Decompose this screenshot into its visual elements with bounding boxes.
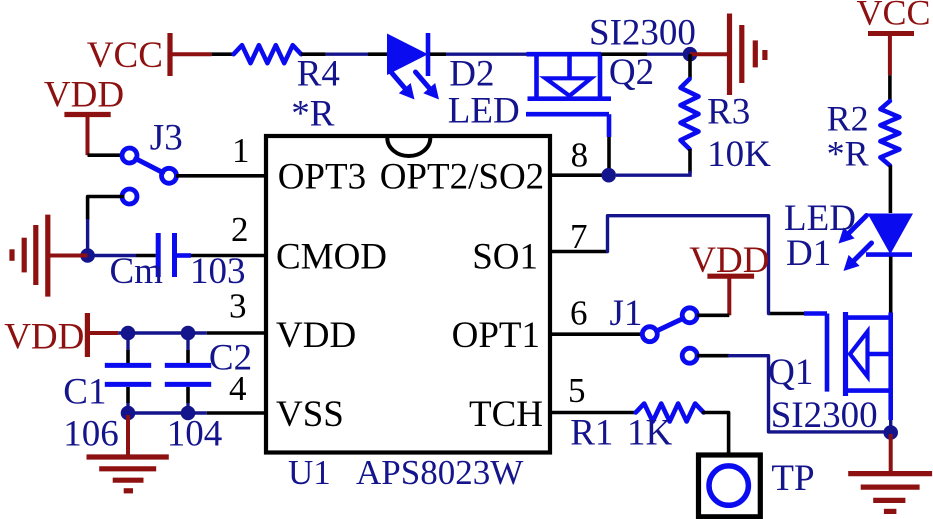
wire J1 lower to ground net [697, 356, 884, 432]
wire R1 to TP [704, 413, 729, 456]
svg-text:5: 5 [568, 371, 586, 410]
wire Q1 source down [888, 391, 893, 433]
node C2 bottom junction [181, 406, 196, 421]
node Q1 source junction [883, 425, 898, 440]
pin number 3 [229, 287, 247, 326]
LED D2 [368, 33, 520, 132]
ground (bottom left) [87, 415, 169, 491]
ground (bottom right) [848, 434, 932, 511]
pin number 8 [571, 136, 589, 175]
wire R3 to pin8 node [616, 171, 692, 175]
capacitor Cm [110, 233, 246, 292]
wire SO1 to Q1 gate [550, 216, 769, 314]
U1 pin name VSS [276, 394, 344, 435]
U1 pin name OPT1 [452, 315, 540, 356]
resistor R3 [681, 54, 772, 175]
wire R2 to D1 [889, 166, 893, 214]
node pin8 junction [601, 168, 616, 183]
svg-text:VDD: VDD [4, 317, 84, 358]
svg-text:J3: J3 [150, 117, 183, 158]
wire pin6 stub [550, 332, 643, 336]
svg-text:D1: D1 [786, 233, 831, 274]
svg-text:R1: R1 [570, 413, 613, 454]
node Q2-R3-GND junction [683, 47, 698, 62]
U1 pin name TCH [469, 394, 543, 435]
svg-text:R2: R2 [827, 99, 869, 139]
svg-text:2: 2 [231, 210, 249, 249]
svg-text:OPT2/SO2: OPT2/SO2 [380, 157, 544, 198]
U1 pin name OPT3 [278, 157, 366, 198]
power port VCC (top right) [857, 0, 931, 75]
wire R4 to D2 [326, 53, 368, 56]
U1 designator label [288, 453, 523, 492]
svg-text:Cm: Cm [110, 251, 164, 292]
jumper J1 [610, 293, 698, 363]
wire pin5 stub [550, 411, 636, 415]
resistor R4 [234, 45, 340, 135]
svg-text:VDD: VDD [276, 315, 356, 356]
svg-text:3: 3 [229, 287, 247, 326]
svg-text:U1: U1 [288, 453, 331, 492]
svg-text:C1: C1 [63, 371, 106, 412]
jumper J3 [122, 117, 183, 204]
svg-text:TP: TP [771, 458, 814, 499]
svg-text:LED: LED [448, 91, 520, 132]
svg-text:VCC: VCC [87, 35, 163, 76]
svg-text:D2: D2 [449, 54, 494, 95]
svg-text:R3: R3 [707, 91, 750, 132]
svg-text:VCC: VCC [857, 0, 931, 33]
svg-text:SI2300: SI2300 [589, 12, 696, 53]
resistor R2 [827, 99, 900, 174]
svg-text:104: 104 [167, 414, 223, 455]
svg-text:6: 6 [570, 294, 588, 333]
wire D1 to Q1 drain [889, 257, 893, 314]
wire VCC to R4 [212, 52, 234, 56]
wire VSS row to pin4 [128, 411, 266, 414]
U1 pin name OPT2/SO2 [380, 157, 544, 198]
U1 pin name SO1 [472, 237, 538, 278]
pin number 6 [570, 294, 588, 333]
wire VDD row to pin3 [118, 331, 266, 334]
wire VCC to R2 [888, 75, 892, 101]
capacitor C1 [63, 333, 151, 455]
svg-text:8: 8 [571, 136, 589, 175]
svg-text:VSS: VSS [276, 394, 344, 435]
svg-text:1K: 1K [627, 413, 673, 454]
svg-text:10K: 10K [707, 134, 771, 175]
LED D1 [784, 198, 913, 274]
transistor Q1 [768, 312, 891, 436]
pin number 2 [231, 210, 249, 249]
wire VDD to J3 [88, 153, 124, 157]
pin number 1 [232, 131, 250, 170]
ground (left, rotated) [12, 215, 88, 297]
svg-text:Q1: Q1 [768, 352, 813, 393]
capacitor C2 [165, 333, 252, 455]
svg-text:R4: R4 [297, 54, 340, 95]
svg-text:OPT3: OPT3 [278, 157, 366, 198]
svg-text:OPT1: OPT1 [452, 315, 540, 356]
svg-text:C2: C2 [209, 338, 252, 379]
ground (top right, rotated) [690, 14, 765, 96]
U1 pin name VDD [276, 315, 356, 356]
node C1 bottom junction [121, 406, 136, 421]
pin number 5 [568, 371, 586, 410]
node C2 top junction [181, 326, 196, 341]
svg-text:*R: *R [827, 134, 869, 174]
svg-text:TCH: TCH [469, 394, 543, 435]
svg-text:SO1: SO1 [472, 237, 538, 278]
wire Cm to pin2 [191, 254, 266, 258]
power port VDD (at J1) [689, 240, 769, 316]
resistor R1 [570, 404, 703, 454]
wire Q2 drain to node [601, 52, 683, 56]
U1 pin name CMOD [276, 237, 387, 278]
svg-text:106: 106 [63, 414, 119, 455]
pin number 7 [570, 217, 588, 256]
power port VDD (top left) [44, 75, 124, 156]
svg-text:VDD: VDD [44, 75, 124, 116]
test point TP [699, 455, 815, 517]
svg-text:SI2300: SI2300 [771, 395, 878, 436]
power port VCC (top left) [87, 33, 212, 76]
wire J3 to pin1 [176, 174, 266, 178]
node C1 top junction [121, 326, 136, 341]
wire D2 to Q2 [446, 53, 527, 56]
node ground-Cm junction [80, 248, 95, 263]
wire node to Cm [88, 254, 156, 257]
power port VDD (middle left) [4, 313, 118, 358]
transistor Q2 [526, 12, 696, 171]
wire J3 lower throw to ground node [88, 197, 123, 256]
wire pin8 stub [550, 173, 602, 177]
svg-text:*R: *R [291, 94, 335, 135]
svg-text:1: 1 [232, 131, 250, 170]
IC U1 APS8023W body [266, 136, 550, 453]
svg-text:APS8023W: APS8023W [356, 453, 523, 492]
svg-text:CMOD: CMOD [276, 237, 387, 278]
svg-text:J1: J1 [610, 293, 643, 334]
svg-text:Q2: Q2 [609, 52, 654, 93]
wire J1 upper to VDD [697, 313, 729, 317]
pin number 4 [229, 369, 247, 408]
